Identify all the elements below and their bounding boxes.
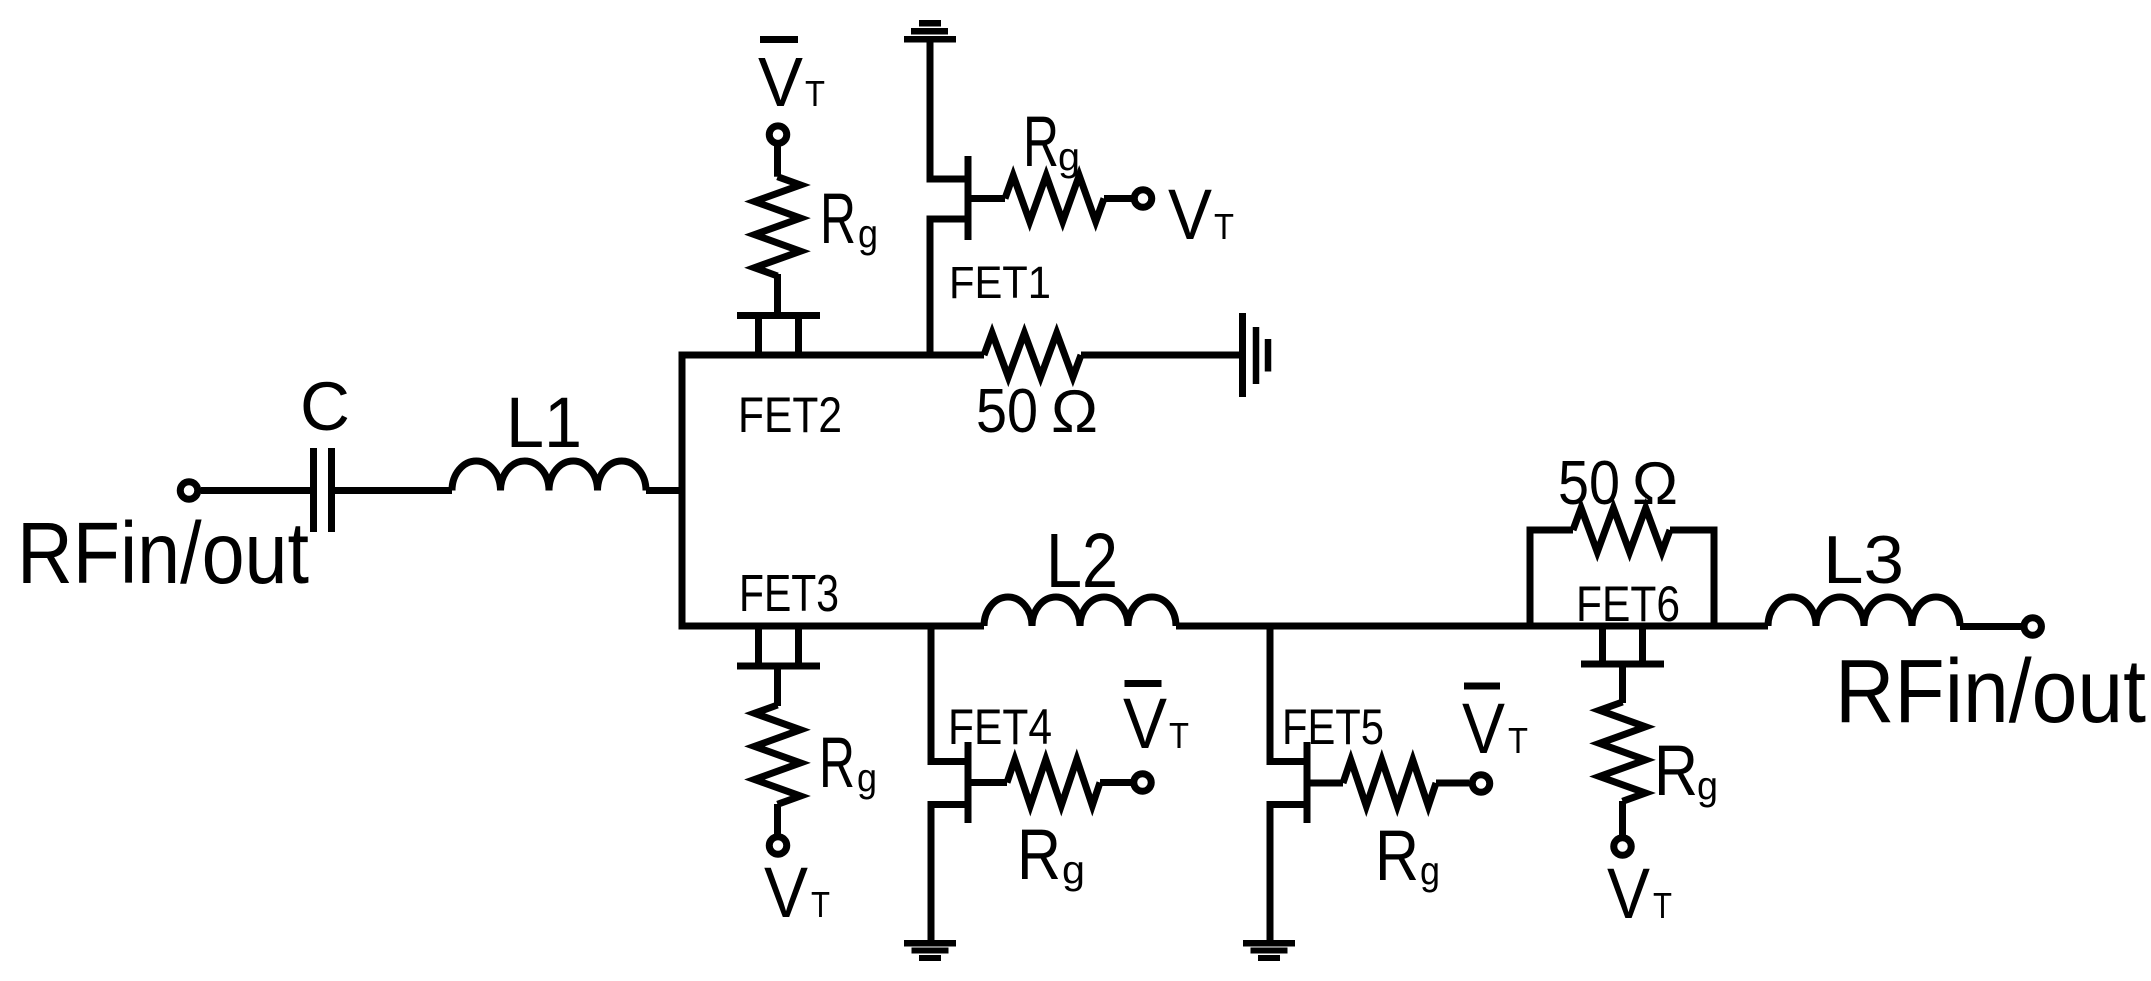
svg-text:g: g (1062, 848, 1085, 892)
wire Rg to terminal (1619, 801, 1626, 837)
svg-text:R: R (1375, 817, 1419, 896)
svg-text:g: g (1697, 764, 1718, 808)
wire lower branch left (679, 623, 985, 630)
wire capacitor to L1 (335, 487, 452, 494)
resistor Rg of FET4 (1007, 760, 1100, 806)
wire L3 to terminal (1960, 623, 2021, 630)
label VT of FET4 overbar (1125, 680, 1162, 687)
svg-text:V: V (1168, 176, 1213, 255)
label VT of FET5 overbar (1464, 683, 1500, 690)
ground right (1243, 313, 1269, 397)
svg-text:V: V (1123, 685, 1168, 764)
svg-text:RFin/out: RFin/out (1835, 642, 2146, 742)
svg-text:g: g (857, 756, 877, 800)
svg-text:L3: L3 (1823, 522, 1904, 598)
transistor FET1 (930, 42, 1005, 359)
svg-text:FET3: FET3 (739, 565, 839, 623)
svg-text:T: T (1508, 720, 1528, 761)
transistor FET6 (1581, 626, 1664, 703)
terminal RFin/out left (180, 482, 198, 500)
resistor Rg of FET1 (1005, 176, 1104, 222)
wire input to capacitor (201, 487, 310, 494)
svg-text:V: V (1462, 690, 1506, 769)
transistor FET5 (1270, 626, 1343, 941)
resistor Rg of FET3 (755, 705, 801, 804)
terminal RFin/out right (2024, 618, 2042, 636)
svg-text:R: R (819, 724, 855, 803)
svg-text:T: T (1169, 715, 1189, 756)
svg-text:R: R (1023, 103, 1059, 182)
svg-text:R: R (820, 180, 856, 259)
resistor 50 ohm upper (984, 333, 1081, 377)
svg-text:T: T (1653, 885, 1672, 926)
terminal VT of FET1 (1134, 190, 1152, 208)
svg-text:FET2: FET2 (738, 387, 842, 443)
terminal VT of FET6 (1614, 838, 1632, 856)
svg-text:50: 50 (1558, 449, 1620, 518)
svg-text:FET5: FET5 (1282, 699, 1384, 755)
svg-text:V: V (764, 854, 809, 933)
svg-text:T: T (811, 884, 830, 925)
svg-text:FET1: FET1 (949, 257, 1051, 308)
svg-text:g: g (1058, 135, 1080, 179)
svg-text:T: T (1214, 206, 1234, 247)
resistor Rg of FET2 (755, 177, 801, 276)
wire Rg to terminal (1100, 779, 1131, 786)
wire Rg to terminal (1104, 195, 1132, 202)
capacitor C (310, 448, 317, 532)
wire L1 to node A (646, 487, 682, 494)
svg-text:C: C (300, 368, 350, 445)
svg-text:50: 50 (976, 377, 1038, 446)
resistor Rg of FET5 (1343, 760, 1436, 806)
wire L2 to FET6 (1176, 623, 1768, 630)
svg-text:Ω: Ω (1632, 450, 1678, 517)
svg-text:R: R (1654, 732, 1698, 811)
svg-text:FET4: FET4 (948, 699, 1052, 755)
svg-text:L2: L2 (1046, 518, 1118, 604)
wire Rg to terminal (1436, 780, 1469, 787)
terminal VT of FET5 (1472, 775, 1490, 793)
svg-text:g: g (858, 212, 878, 256)
resistor Rg of FET6 (1600, 702, 1646, 801)
wire 50 ohm to ground (1081, 352, 1239, 359)
wire upper branch (679, 352, 985, 359)
svg-text:R: R (1017, 816, 1061, 895)
wire Rg to terminal (774, 145, 781, 177)
svg-text:RFin/out: RFin/out (17, 505, 309, 602)
terminal VT top (769, 126, 787, 144)
inductor L2 (984, 597, 1176, 626)
terminal VT of FET3 (769, 837, 787, 855)
svg-text:L1: L1 (506, 384, 582, 463)
wire Rg to terminal (774, 804, 781, 836)
node A vertical wire (679, 352, 686, 630)
svg-text:T: T (805, 73, 825, 114)
inductor L1 (452, 461, 646, 491)
ground of FET5 (1243, 940, 1295, 961)
50 ohm bypass branch of FET6 (1530, 508, 1714, 626)
inductor L3 (1768, 597, 1960, 626)
terminal VT of FET4 (1134, 774, 1152, 792)
transistor FET2 (737, 274, 820, 355)
svg-text:FET6: FET6 (1576, 576, 1680, 632)
svg-text:g: g (1420, 849, 1440, 893)
label VT top overbar (760, 36, 798, 43)
svg-text:Ω: Ω (1051, 378, 1098, 445)
svg-text:V: V (758, 43, 803, 121)
ground top (904, 20, 956, 43)
svg-text:V: V (1607, 855, 1651, 934)
ground of FET4 (904, 940, 956, 961)
transistor FET4 (931, 626, 1007, 941)
transistor FET3 (737, 626, 820, 706)
